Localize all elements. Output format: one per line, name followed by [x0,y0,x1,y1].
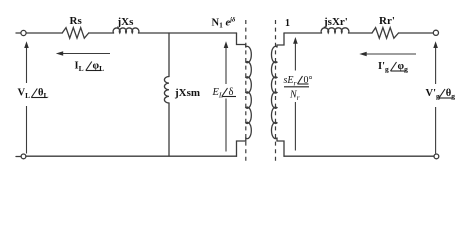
label sEr angle 0 over Nr [284,75,313,102]
wire Rr' to right terminal [399,32,434,34]
svg-text:jXsm: jXsm [174,87,200,99]
bottom-right wire [284,155,434,157]
voltage arrow sEr shaft lower [294,102,296,151]
arrowhead I'_g [359,52,366,57]
wire jsXr' to Rr' [349,32,373,34]
label V_L angle theta_L [18,88,49,101]
svg-text:1: 1 [285,18,290,29]
wire Rs to jXs [89,32,114,34]
svg-text:Rr': Rr' [379,15,395,27]
terminal stub bottom-left [16,156,21,158]
svg-text:Rs: Rs [70,15,83,27]
transformer secondary top lead [277,33,284,47]
jXsm branch vertical wire lower [168,103,170,156]
resistor Rr' [372,28,399,39]
inductor jsXr' [321,28,349,33]
current arrow I_L shaft [62,53,110,55]
arrowhead I_L [56,51,63,56]
voltage arrow V'_g shaft upper [435,48,437,85]
wire secondary to jsXr [284,32,322,34]
voltage arrow E_L shaft upper [225,48,227,85]
bottom-left wire [26,155,237,157]
transformer primary bottom lead [237,138,246,156]
core dashed line right [275,20,277,164]
inductor jXs [113,28,139,33]
current arrow I'_g shaft [366,53,417,55]
terminal circle top-left [21,30,26,35]
terminal stub top-left [16,32,21,34]
label I'_g angle phi_g [378,61,408,74]
arrowhead sEr [293,37,298,44]
inductor jXsm [164,77,169,103]
transformer primary top lead [237,33,246,47]
voltage arrow sEr shaft upper [294,44,296,71]
arrowhead E_L [224,41,229,48]
svg-text:jXs: jXs [117,16,135,28]
arrowhead V'_g [433,41,438,48]
arrowhead V_L [24,41,29,48]
terminal circle bottom-left [21,154,26,159]
wire jXs to primary [139,32,237,34]
voltage arrow E_L shaft lower [225,99,227,152]
core dashed line left [245,20,247,164]
label E_L angle delta [212,87,237,100]
svg-text:jsXr': jsXr' [323,16,348,28]
transformer secondary bottom lead [277,138,284,156]
voltage arrow V_L shaft lower [26,106,28,154]
resistor Rs [62,28,88,39]
label V'_g angle theta_g [426,88,456,101]
label I_L angle phi_L [75,61,105,74]
node jXsm branch vertical wire upper [168,33,170,77]
voltage arrow V'_g shaft lower [435,107,437,154]
svg-text:0°: 0° [304,75,313,86]
svg-text:δ: δ [229,87,234,98]
wire top-left to resistor [26,32,62,34]
transformer secondary winding [271,46,277,138]
terminal circle bottom-right [434,154,439,159]
terminal circle top-right [433,30,438,35]
voltage arrow V_L shaft upper [26,48,28,84]
transformer primary winding [246,46,252,138]
